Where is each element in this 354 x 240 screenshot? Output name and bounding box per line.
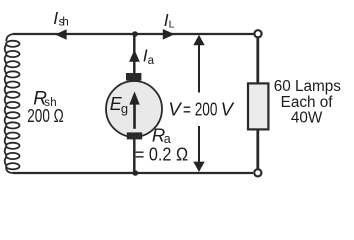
arrow IL (right) — [163, 29, 175, 40]
wire generator bottom to bottom wire — [133, 139, 136, 172]
svg-text:40W: 40W — [291, 109, 323, 126]
svg-text:V: V — [168, 98, 182, 119]
wire from top junction to generator — [133, 34, 136, 74]
wire bottom horizontal — [13, 172, 253, 174]
generator armature circle — [106, 81, 162, 137]
terminal bottom right — [254, 169, 261, 176]
brush top — [126, 73, 141, 81]
svg-text:Each of: Each of — [281, 94, 334, 111]
svg-text:sh: sh — [59, 17, 69, 29]
wire right vertical top — [256, 38, 259, 83]
junction dot bottom — [133, 170, 139, 176]
svg-text:= 0.2 Ω: = 0.2 Ω — [135, 144, 188, 165]
wire right vertical bottom — [256, 130, 259, 170]
V dimension line with arrows — [198, 44, 200, 93]
inductor Rsh (shunt field coil) — [5, 34, 20, 173]
svg-text:g: g — [121, 101, 128, 116]
svg-text:V: V — [221, 98, 235, 119]
svg-text:L: L — [169, 18, 175, 30]
svg-text:60 Lamps: 60 Lamps — [274, 78, 342, 95]
Eg arrow (up, inside circle) — [133, 103, 136, 129]
junction dot top — [132, 31, 138, 37]
wire top horizontal — [13, 33, 254, 35]
arrow Ia (up) — [129, 50, 140, 62]
terminal top right — [254, 30, 261, 37]
brush bottom — [127, 132, 142, 139]
load resistor (60 lamps) — [248, 83, 268, 129]
arrow Ish (left) — [55, 29, 67, 40]
svg-text:I: I — [53, 8, 58, 28]
svg-text:= 200: = 200 — [183, 98, 217, 119]
svg-text:a: a — [148, 55, 155, 67]
svg-text:200 Ω: 200 Ω — [27, 106, 63, 126]
